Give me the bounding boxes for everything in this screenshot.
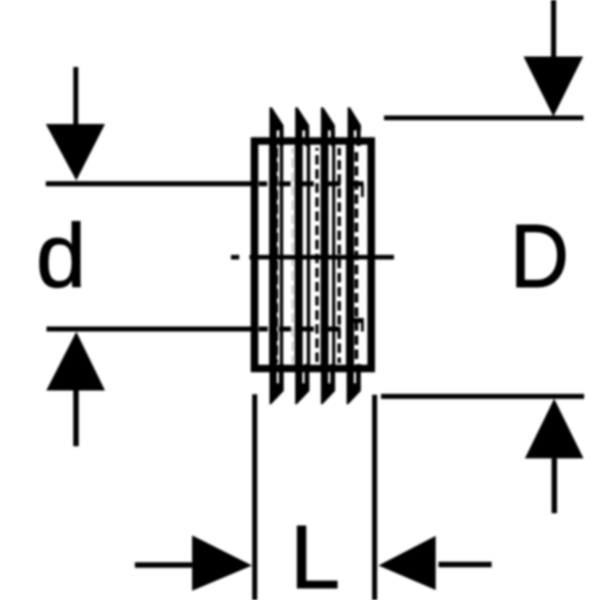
crest bar 3 — [321, 144, 329, 366]
dimension line L right + arrow — [439, 562, 492, 567]
body outline — [251, 137, 375, 372]
root line 3 — [332, 144, 335, 366]
crest bar 4 — [346, 144, 354, 366]
arrow d bottom — [73, 391, 79, 447]
crest bar 1 — [269, 144, 277, 366]
crest bar 2 — [295, 144, 303, 366]
bottom fin 3 — [321, 364, 335, 404]
top fin 2 — [295, 107, 309, 146]
top fin 1 — [270, 107, 284, 146]
bore chamfer line upper — [361, 184, 364, 198]
dashed internal thread lines — [277, 148, 357, 363]
root line 1 — [280, 144, 283, 366]
top fin 3 — [321, 107, 335, 146]
arrow d top — [73, 67, 78, 124]
extension line L left — [252, 394, 257, 600]
arrow D top — [551, 0, 556, 57]
centerline — [231, 255, 394, 260]
arrow D bottom — [552, 458, 557, 513]
dimension line d upper — [46, 181, 364, 186]
bottom fin 2 — [295, 364, 309, 404]
dimension line d lower — [47, 321, 364, 330]
bore chamfer line lower — [361, 318, 364, 332]
svg-text:D: D — [510, 207, 569, 307]
svg-text:L: L — [290, 508, 340, 600]
svg-text:d: d — [36, 207, 86, 307]
top fin 4 — [348, 107, 361, 146]
dimension line L left + arrow — [135, 562, 192, 567]
dimension line D top — [384, 116, 584, 121]
bottom fin 1 — [270, 364, 284, 404]
extension line L right — [372, 395, 377, 600]
dimension line D bottom — [381, 394, 584, 399]
bottom fin 4 — [347, 364, 361, 404]
root line 2 — [307, 144, 310, 366]
